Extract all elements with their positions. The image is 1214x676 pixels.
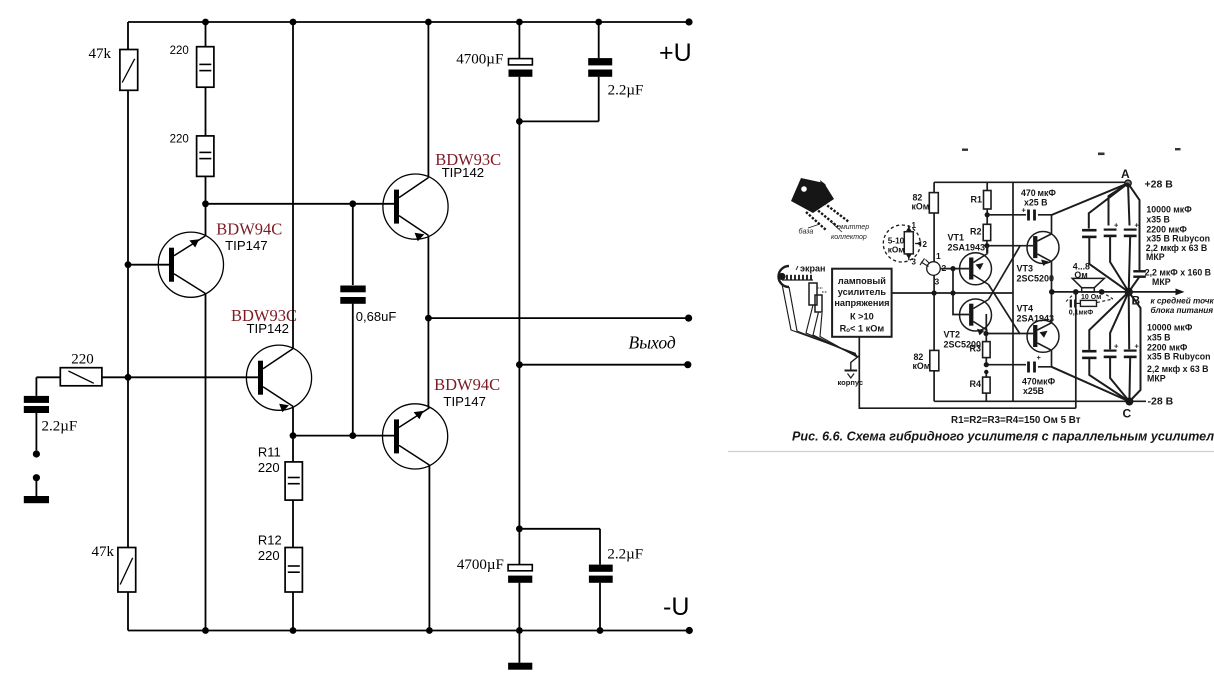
svg-text:эмиттер: эмиттер xyxy=(838,224,870,231)
fan B to bottom caps xyxy=(1089,292,1140,402)
svg-text:МКР: МКР xyxy=(1147,374,1166,384)
resistor 220 top2 xyxy=(197,136,214,177)
svg-text:+: + xyxy=(1037,353,1042,362)
node R1 cap junction xyxy=(985,212,990,217)
svg-text:кОм: кОм xyxy=(913,361,931,371)
capacitor bank top 2 xyxy=(1104,221,1119,236)
svg-text:2SC5200: 2SC5200 xyxy=(1017,274,1055,284)
svg-text:напряжения: напряжения xyxy=(834,298,889,308)
svg-text:кОм: кОм xyxy=(888,244,905,254)
wire 470u bottom row xyxy=(986,365,1051,367)
resistor R4 xyxy=(983,377,991,393)
svg-text:47k: 47k xyxy=(89,46,112,62)
svg-text:к средней точке: к средней точке xyxy=(1151,297,1214,306)
wire VT3 collector riser xyxy=(1051,215,1053,234)
transistor Q3 BDW93C middle xyxy=(246,345,311,412)
svg-text:A: A xyxy=(1121,167,1130,181)
capacitor 4700uF top xyxy=(509,59,533,65)
svg-text:кОм: кОм xyxy=(912,202,930,212)
cap bank labels bottom xyxy=(1147,323,1211,384)
svg-text:коллектор: коллектор xyxy=(831,234,867,241)
capacitor 2.2uF input xyxy=(35,377,37,450)
svg-text:1: 1 xyxy=(912,221,917,230)
svg-text:TIP147: TIP147 xyxy=(225,238,268,253)
wire VT3 emitter drop xyxy=(1051,262,1053,292)
svg-text:х35 В Rubycon: х35 В Rubycon xyxy=(1146,234,1210,244)
node A xyxy=(1125,180,1131,186)
ground bottom xyxy=(508,663,532,670)
inner pin elements xyxy=(809,283,817,305)
node return left xyxy=(516,361,523,368)
resistor R1 xyxy=(984,191,992,210)
node base Q1 xyxy=(125,261,132,268)
svg-text:R1=R2=R3=R4=150 Ом 5 Вт: R1=R2=R3=R4=150 Ом 5 Вт xyxy=(951,415,1081,426)
wire box output down xyxy=(859,292,1076,408)
svg-text:TIP147: TIP147 xyxy=(443,394,486,409)
svg-text:+: + xyxy=(1114,342,1119,351)
svg-text:ламповый: ламповый xyxy=(838,276,886,286)
svg-text:R4: R4 xyxy=(970,379,982,389)
transistor package TO-247 xyxy=(791,178,849,230)
wire box output right xyxy=(892,292,1013,294)
zobel cap 0.1uF xyxy=(1071,300,1075,308)
svg-text:0,68uF: 0,68uF xyxy=(356,309,397,324)
wire mid rail xyxy=(518,22,520,663)
node speaker right xyxy=(1099,289,1105,295)
switch circle xyxy=(927,262,941,276)
wire y436 to Q4 base xyxy=(293,435,394,437)
svg-text:экран: экран xyxy=(800,264,825,274)
wire cap link bottom xyxy=(519,528,600,530)
wire Q2 collector xyxy=(427,22,429,178)
svg-text:BDW94C: BDW94C xyxy=(434,375,500,394)
svg-text:х25 В: х25 В xyxy=(1024,198,1047,208)
svg-text:2SA1943: 2SA1943 xyxy=(948,243,986,253)
svg-text:+: + xyxy=(1114,221,1119,230)
node Q3-emitter junction xyxy=(290,432,297,439)
tube amp box xyxy=(832,269,892,337)
svg-text:2SC5200: 2SC5200 xyxy=(944,340,982,350)
node dots top rail xyxy=(202,19,209,26)
svg-text:база: база xyxy=(799,228,814,236)
wire R12 to rail xyxy=(292,592,294,631)
cap bank labels top xyxy=(1145,205,1211,288)
svg-text:3: 3 xyxy=(912,258,917,267)
svg-text:R2: R2 xyxy=(970,227,982,237)
speaker xyxy=(1072,278,1104,287)
svg-text:Рис. 6.6. Схема гибридного уси: Рис. 6.6. Схема гибридного усилителя с п… xyxy=(792,430,1214,444)
svg-text:х35 В: х35 В xyxy=(1146,215,1169,225)
svg-text:+28 В: +28 В xyxy=(1145,179,1174,191)
hairline xyxy=(728,451,1214,453)
wire bottom rail xyxy=(128,630,689,632)
node mid-cap top xyxy=(516,118,523,125)
wire vert mid rail xyxy=(1012,182,1014,401)
svg-text:х35 В Rubycon: х35 В Rubycon xyxy=(1147,352,1211,362)
transistor Q1 BDW94C top-left xyxy=(158,232,223,297)
wire VT4 emitter drop xyxy=(1051,350,1053,367)
fan bottom caps to C xyxy=(1089,357,1130,402)
scan mark 2 xyxy=(1098,153,1105,156)
node connector a xyxy=(33,450,40,457)
transistor Q4 BDW94C bottom-right xyxy=(383,404,448,469)
wire input row xyxy=(36,376,258,378)
potentiometer 5-10k xyxy=(883,225,920,262)
wire base Q1 xyxy=(128,264,169,266)
transistor VT3 xyxy=(1027,232,1059,267)
wire output row xyxy=(428,317,688,319)
svg-text:Выход: Выход xyxy=(629,332,676,352)
arrow to mid supply xyxy=(1129,291,1178,293)
wire Q3 emitter xyxy=(292,406,294,462)
capacitor bank bottom 2 xyxy=(1104,342,1119,357)
wire base link vert xyxy=(953,269,969,315)
svg-text:2,2 мкФ х 160 В: 2,2 мкФ х 160 В xyxy=(1145,268,1211,278)
capacitor 2.2uF top xyxy=(598,22,600,121)
node R3 bottom xyxy=(984,362,989,367)
wire R3 top to VT4 base xyxy=(986,333,1033,335)
node bottom-cap link xyxy=(516,525,523,532)
node B xyxy=(1125,288,1133,296)
svg-text:BDW94C: BDW94C xyxy=(216,219,282,238)
transistor VT4 xyxy=(1027,320,1059,352)
transistor VT1 xyxy=(960,246,992,285)
node 0.68uF bottom xyxy=(349,432,356,439)
wire Q2 emitter to output xyxy=(427,235,429,318)
node R4 top xyxy=(984,370,988,374)
transistor Q2 BDW93C top-right xyxy=(383,174,448,241)
svg-text:2SA1943: 2SA1943 xyxy=(1017,314,1055,324)
wire output column xyxy=(428,318,429,630)
svg-text:3: 3 xyxy=(935,277,940,287)
wire cap link top xyxy=(519,120,598,122)
capacitor 2.2uF bottom xyxy=(599,529,601,631)
svg-text:220: 220 xyxy=(258,460,280,475)
capacitor bank top 3 xyxy=(1124,221,1140,236)
svg-text:TIP142: TIP142 xyxy=(442,165,485,180)
scan mark 1 xyxy=(962,149,968,151)
connector RCA xyxy=(779,266,789,287)
svg-text:2.2µF: 2.2µF xyxy=(607,546,643,562)
ground корпус xyxy=(851,356,860,371)
scan mark 3 xyxy=(1175,148,1181,150)
node dots bottom rail xyxy=(202,627,209,634)
svg-text:VT3: VT3 xyxy=(1017,264,1034,274)
svg-text:220: 220 xyxy=(71,351,94,367)
resistor 220 top1 xyxy=(197,47,214,87)
wire R11-R12 xyxy=(292,500,294,547)
svg-text:Rₒ< 1 кОм: Rₒ< 1 кОм xyxy=(840,324,885,334)
svg-text:-28 В: -28 В xyxy=(1148,396,1174,408)
resistor 82k top xyxy=(929,193,938,213)
resistor 220 input xyxy=(60,368,102,386)
svg-text:2.2µF: 2.2µF xyxy=(608,83,644,99)
capacitor 4700uF bottom xyxy=(508,565,532,571)
svg-text:10000 мкФ: 10000 мкФ xyxy=(1146,205,1192,215)
svg-text:220: 220 xyxy=(170,134,189,146)
svg-text:220: 220 xyxy=(170,45,189,57)
svg-text:2.2µF: 2.2µF xyxy=(42,419,78,435)
capacitor 470uF bottom xyxy=(1029,362,1035,373)
resistor R12 xyxy=(285,548,302,593)
wire R2 to VT3 base xyxy=(987,245,1033,247)
svg-text:C: C xyxy=(1123,407,1132,421)
wire left bias rail xyxy=(933,182,935,401)
svg-text:К >10: К >10 xyxy=(850,312,874,322)
node R3 top xyxy=(983,331,988,336)
svg-text:TIP142: TIP142 xyxy=(247,321,290,336)
node 0.68uF top xyxy=(349,200,356,207)
wire X cross xyxy=(989,246,1021,334)
zobel dashed xyxy=(1066,292,1113,303)
resistor 47k bottom xyxy=(118,548,136,593)
capacitor 0.68uF xyxy=(352,204,354,436)
wire bundle xyxy=(782,284,858,358)
svg-text:47k: 47k xyxy=(92,544,115,560)
capacitor bank top 1 xyxy=(1082,230,1096,237)
svg-text:4700µF: 4700µF xyxy=(457,557,504,573)
svg-text:усилитель: усилитель xyxy=(838,287,887,297)
svg-text:1: 1 xyxy=(936,251,941,261)
wire 470u bottom fan to C xyxy=(1052,367,1130,402)
node speaker left xyxy=(1073,289,1079,295)
node return end xyxy=(684,361,691,368)
capacitor bank bottom 3 xyxy=(1124,342,1140,357)
node output end xyxy=(685,315,692,322)
svg-text:VT4: VT4 xyxy=(1017,304,1034,314)
resistor 82k bottom xyxy=(930,350,939,370)
fan A wires xyxy=(1052,183,1140,268)
node box out crossings xyxy=(932,290,937,295)
svg-text:0,1мкФ: 0,1мкФ xyxy=(1069,310,1093,317)
ground input xyxy=(35,481,37,496)
wire 220-column xyxy=(205,22,207,631)
capacitor 2.2uF 160V xyxy=(1133,271,1146,276)
svg-text:+: + xyxy=(1135,342,1140,351)
resistor R3 xyxy=(983,342,991,358)
fan to B from caps xyxy=(1089,236,1139,292)
capacitor 470uF top xyxy=(1029,210,1035,221)
svg-text:х25В: х25В xyxy=(1023,386,1044,396)
svg-text:220: 220 xyxy=(258,548,280,563)
svg-text:х35 В: х35 В xyxy=(1147,333,1170,343)
wire B row xyxy=(1052,291,1129,293)
wire bottom rail right xyxy=(934,400,1146,402)
svg-text:470мкФ: 470мкФ xyxy=(1022,377,1056,387)
wire Q3 collector xyxy=(292,22,294,349)
wire VT4 collector riser xyxy=(1051,292,1053,323)
svg-text:R11: R11 xyxy=(258,444,281,459)
svg-text:Ом: Ом xyxy=(1074,270,1087,280)
svg-text:блока питания: блока питания xyxy=(1151,305,1214,315)
node R2 junction xyxy=(984,243,989,248)
wire 470u top row xyxy=(987,214,1051,216)
svg-text:470 мкФ: 470 мкФ xyxy=(1021,188,1056,198)
node C xyxy=(1125,398,1133,406)
zobel resistor 10 Ом xyxy=(1080,300,1096,306)
svg-text:VT2: VT2 xyxy=(944,330,961,340)
wire top rail right xyxy=(934,181,1128,183)
resistor 47k top xyxy=(120,50,138,91)
wire y204 to Q2 base xyxy=(206,203,395,205)
svg-text:2,2 мкф х 63 В: 2,2 мкф х 63 В xyxy=(1147,364,1209,374)
node input xyxy=(125,374,132,381)
svg-text:-U: -U xyxy=(663,593,689,621)
wire return row xyxy=(519,364,687,366)
svg-text:+U: +U xyxy=(659,39,692,67)
svg-text:R1: R1 xyxy=(971,195,983,205)
node vt1 base wire xyxy=(950,266,955,271)
svg-text:+: + xyxy=(1135,221,1140,230)
svg-text:10 Ом: 10 Ом xyxy=(1081,294,1101,301)
svg-text:R12: R12 xyxy=(258,533,282,548)
node output xyxy=(425,315,432,322)
svg-text:4700µF: 4700µF xyxy=(456,52,503,68)
svg-text:2: 2 xyxy=(923,240,928,249)
wire left rail xyxy=(127,22,129,631)
svg-text:+: + xyxy=(1022,206,1027,215)
wire switch to VT1 base xyxy=(940,268,969,270)
node connector b xyxy=(33,474,40,481)
node 220/Q1 xyxy=(202,200,209,207)
resistor R2 xyxy=(983,224,991,240)
wire top rail xyxy=(128,21,689,23)
node B-line left xyxy=(1049,289,1055,295)
svg-text:10000 мкФ: 10000 мкФ xyxy=(1147,323,1193,333)
capacitor bank bottom 1 xyxy=(1082,351,1096,358)
resistor R11 xyxy=(285,462,302,500)
svg-text:VT1: VT1 xyxy=(948,233,965,243)
transistor VT2 xyxy=(960,299,992,335)
svg-text:МКР: МКР xyxy=(1146,252,1165,262)
svg-text:МКР: МКР xyxy=(1152,277,1171,287)
